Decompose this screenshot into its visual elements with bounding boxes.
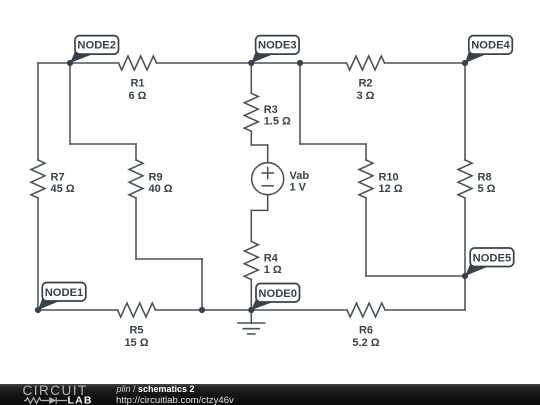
svg-text:LAB: LAB	[68, 395, 93, 405]
svg-text:1.5 Ω: 1.5 Ω	[264, 116, 291, 128]
wire R10 top lead	[365, 144, 367, 160]
svg-text:NODE0: NODE0	[258, 288, 297, 300]
wire right rail upper	[464, 63, 466, 160]
svg-text:45 Ω: 45 Ω	[51, 183, 75, 195]
svg-text:5 Ω: 5 Ω	[478, 183, 496, 195]
svg-text:R2: R2	[358, 78, 372, 90]
ground bar 3	[248, 333, 255, 335]
svg-text:R4: R4	[264, 253, 279, 265]
voltage source minus sign	[262, 185, 273, 187]
wire R3 bottom lead	[250, 131, 252, 145]
logo diode triangle	[49, 397, 56, 404]
wire left rail upper	[37, 63, 39, 160]
junction dot NODE4	[462, 60, 468, 66]
logo resistor squiggle	[24, 397, 67, 403]
wire R4 bottom lead	[250, 280, 252, 311]
node flag NODE4 box	[469, 36, 513, 55]
wire NODE3 branch vertical drop	[299, 63, 301, 144]
wire NODE3 branch horizontal jog	[300, 143, 366, 145]
wire R9 bottom horizontal jog	[136, 258, 202, 260]
wire R3 top lead	[250, 63, 252, 93]
node flag NODE3 box	[256, 36, 300, 55]
svg-text:Vab: Vab	[290, 170, 310, 182]
svg-text:12 Ω: 12 Ω	[379, 183, 403, 195]
svg-text:40 Ω: 40 Ω	[149, 183, 173, 195]
flag tail NODE0	[251, 298, 274, 310]
wire R9 bottom lead	[135, 198, 137, 259]
node flag NODE1 box	[42, 283, 86, 302]
svg-text:1 Ω: 1 Ω	[264, 264, 282, 276]
wire R10 bottom lead	[365, 198, 367, 276]
svg-text:R10: R10	[379, 172, 399, 184]
resistor R10	[359, 160, 373, 198]
wire R10 to right rail (NODE5 row)	[366, 275, 465, 277]
svg-text:NODE4: NODE4	[471, 40, 510, 52]
flag tail NODE5	[465, 263, 489, 276]
svg-text:NODE5: NODE5	[473, 252, 512, 264]
svg-text:NODE2: NODE2	[77, 40, 116, 52]
wire jog from Vab to R4	[251, 209, 267, 211]
wire R9 top lead	[135, 144, 137, 160]
svg-text:R6: R6	[359, 325, 373, 337]
junction dot NODE2	[67, 60, 73, 66]
resistor R6	[347, 303, 385, 317]
junction dot NODE0 ground	[248, 307, 254, 313]
wire jog to Vab top	[251, 144, 267, 146]
svg-text:R9: R9	[149, 172, 163, 184]
resistor R7	[31, 160, 45, 198]
wire NODE2 branch vertical drop	[69, 63, 71, 144]
wire Vab top lead	[267, 145, 269, 163]
junction dot top rail R10 branch	[297, 60, 303, 66]
resistor R2	[347, 56, 385, 70]
voltage source plus sign	[262, 172, 273, 174]
svg-text:1 V: 1 V	[290, 182, 307, 194]
resistor R4	[244, 242, 258, 280]
wire bottom rail left segment	[38, 309, 118, 311]
svg-text:NODE3: NODE3	[258, 40, 297, 52]
flag tail NODE4	[465, 50, 487, 63]
junction dot NODE5	[462, 273, 468, 279]
svg-text:6 Ω: 6 Ω	[129, 90, 147, 102]
svg-text:5.2 Ω: 5.2 Ω	[352, 337, 379, 349]
svg-text:NODE1: NODE1	[45, 287, 84, 299]
voltage source Vab circle	[252, 163, 284, 195]
svg-text:3 Ω: 3 Ω	[357, 90, 375, 102]
wire top rail left segment	[38, 62, 119, 64]
ground bar 1	[238, 322, 265, 324]
svg-text:R5: R5	[129, 325, 143, 337]
svg-text:plin / schematics 2: plin / schematics 2	[116, 384, 195, 394]
svg-text:http://circuitlab.com/ctzy46v: http://circuitlab.com/ctzy46v	[116, 395, 234, 405]
junction dot bottom rail R9 branch	[199, 307, 205, 313]
wire bottom rail middle segment	[156, 309, 348, 311]
ground bar 2	[243, 328, 259, 330]
ground stub	[250, 310, 252, 323]
resistor R3	[244, 93, 258, 131]
footer bar	[0, 384, 540, 405]
flag tail NODE2	[70, 50, 94, 63]
svg-text:R7: R7	[51, 172, 65, 184]
junction dot NODE1	[35, 307, 41, 313]
svg-text:15 Ω: 15 Ω	[124, 337, 148, 349]
wire R9 branch drop to bottom rail	[201, 259, 203, 310]
wire left rail lower	[37, 198, 39, 310]
wire right rail lower	[464, 198, 466, 310]
wire Vab bottom lead	[267, 195, 269, 211]
node flag NODE2 box	[75, 36, 119, 55]
svg-text:R8: R8	[478, 172, 492, 184]
wire bottom rail right segment	[385, 309, 465, 311]
flag tail NODE3	[251, 50, 274, 63]
wire NODE2 branch horizontal jog	[70, 143, 136, 145]
resistor R1	[119, 56, 157, 70]
resistor R5	[118, 303, 156, 317]
wire top rail middle segment	[157, 62, 347, 64]
wire R4 top lead	[250, 210, 252, 241]
resistor R8	[458, 160, 472, 198]
wire top rail right segment	[385, 62, 466, 64]
resistor R9	[129, 160, 143, 198]
svg-text:R1: R1	[130, 78, 144, 90]
junction dot NODE3	[248, 60, 254, 66]
node flag NODE0 box	[256, 284, 300, 303]
flag tail NODE1	[38, 297, 61, 310]
node flag NODE5 box	[470, 248, 514, 267]
svg-text:R3: R3	[264, 104, 278, 116]
